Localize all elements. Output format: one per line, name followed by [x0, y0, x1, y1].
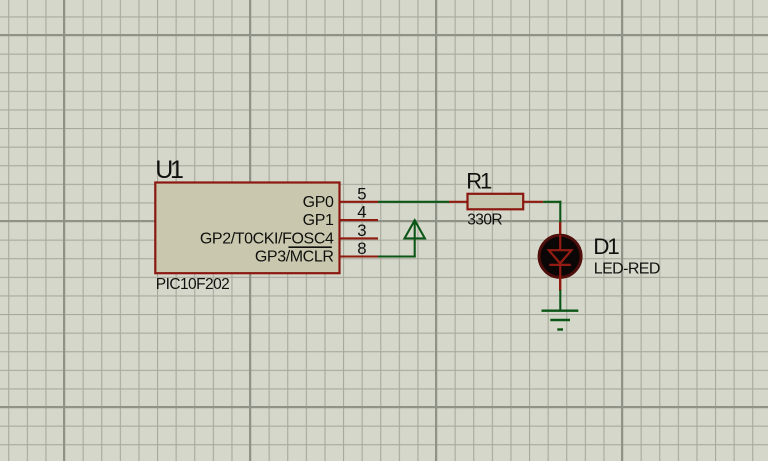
chip pin 4 (GP1) stub — [341, 219, 379, 221]
pin name GP3/MCLR — [255, 249, 334, 266]
U1 reference label — [155, 156, 183, 184]
pin name GP0 — [303, 194, 334, 211]
svg-text:R1: R1 — [466, 169, 492, 194]
LED D1 — [539, 222, 581, 291]
svg-text:GP2/T0CKI/FOSC4: GP2/T0CKI/FOSC4 — [200, 230, 334, 247]
svg-text:3: 3 — [357, 221, 366, 240]
pin number 8 — [357, 239, 366, 258]
D1 reference label — [593, 234, 619, 259]
PIC10F202 value label — [156, 276, 229, 293]
svg-text:330R: 330R — [467, 212, 502, 229]
chip pin 8 (GP3) stub — [341, 255, 379, 257]
330R value label — [467, 212, 502, 229]
svg-text:5: 5 — [357, 185, 366, 204]
R1 reference label — [466, 169, 492, 194]
svg-text:8: 8 — [357, 239, 366, 258]
pin number 4 — [357, 203, 366, 222]
wire LED to ground — [559, 290, 561, 311]
chip U1 body — [155, 183, 339, 274]
svg-text:PIC10F202: PIC10F202 — [156, 276, 229, 293]
svg-text:GP1: GP1 — [303, 212, 334, 229]
MCLR overline — [288, 246, 331, 248]
svg-text:U1: U1 — [155, 156, 183, 184]
wire R1 to LED corner — [543, 201, 561, 223]
svg-text:GP0: GP0 — [303, 194, 334, 211]
ground — [542, 311, 579, 330]
wire pin5 to R1 — [378, 201, 449, 203]
pin name GP2/T0CKI/FOSC4 — [200, 230, 334, 247]
pin number 3 — [357, 221, 366, 240]
resistor R1 — [449, 194, 543, 210]
chip pin 3 (GP2) stub — [341, 237, 379, 239]
svg-text:LED-RED: LED-RED — [594, 261, 660, 278]
svg-text:D1: D1 — [593, 234, 619, 259]
input arrow terminal — [405, 220, 425, 238]
wire pin8 to input arrow — [378, 238, 416, 258]
chip pin 5 (GP0) stub — [341, 201, 379, 203]
pin number 5 — [357, 185, 366, 204]
svg-text:4: 4 — [357, 203, 366, 222]
LED-RED value label — [594, 261, 660, 278]
pin name GP1 — [303, 212, 334, 229]
svg-text:GP3/MCLR: GP3/MCLR — [255, 249, 334, 266]
